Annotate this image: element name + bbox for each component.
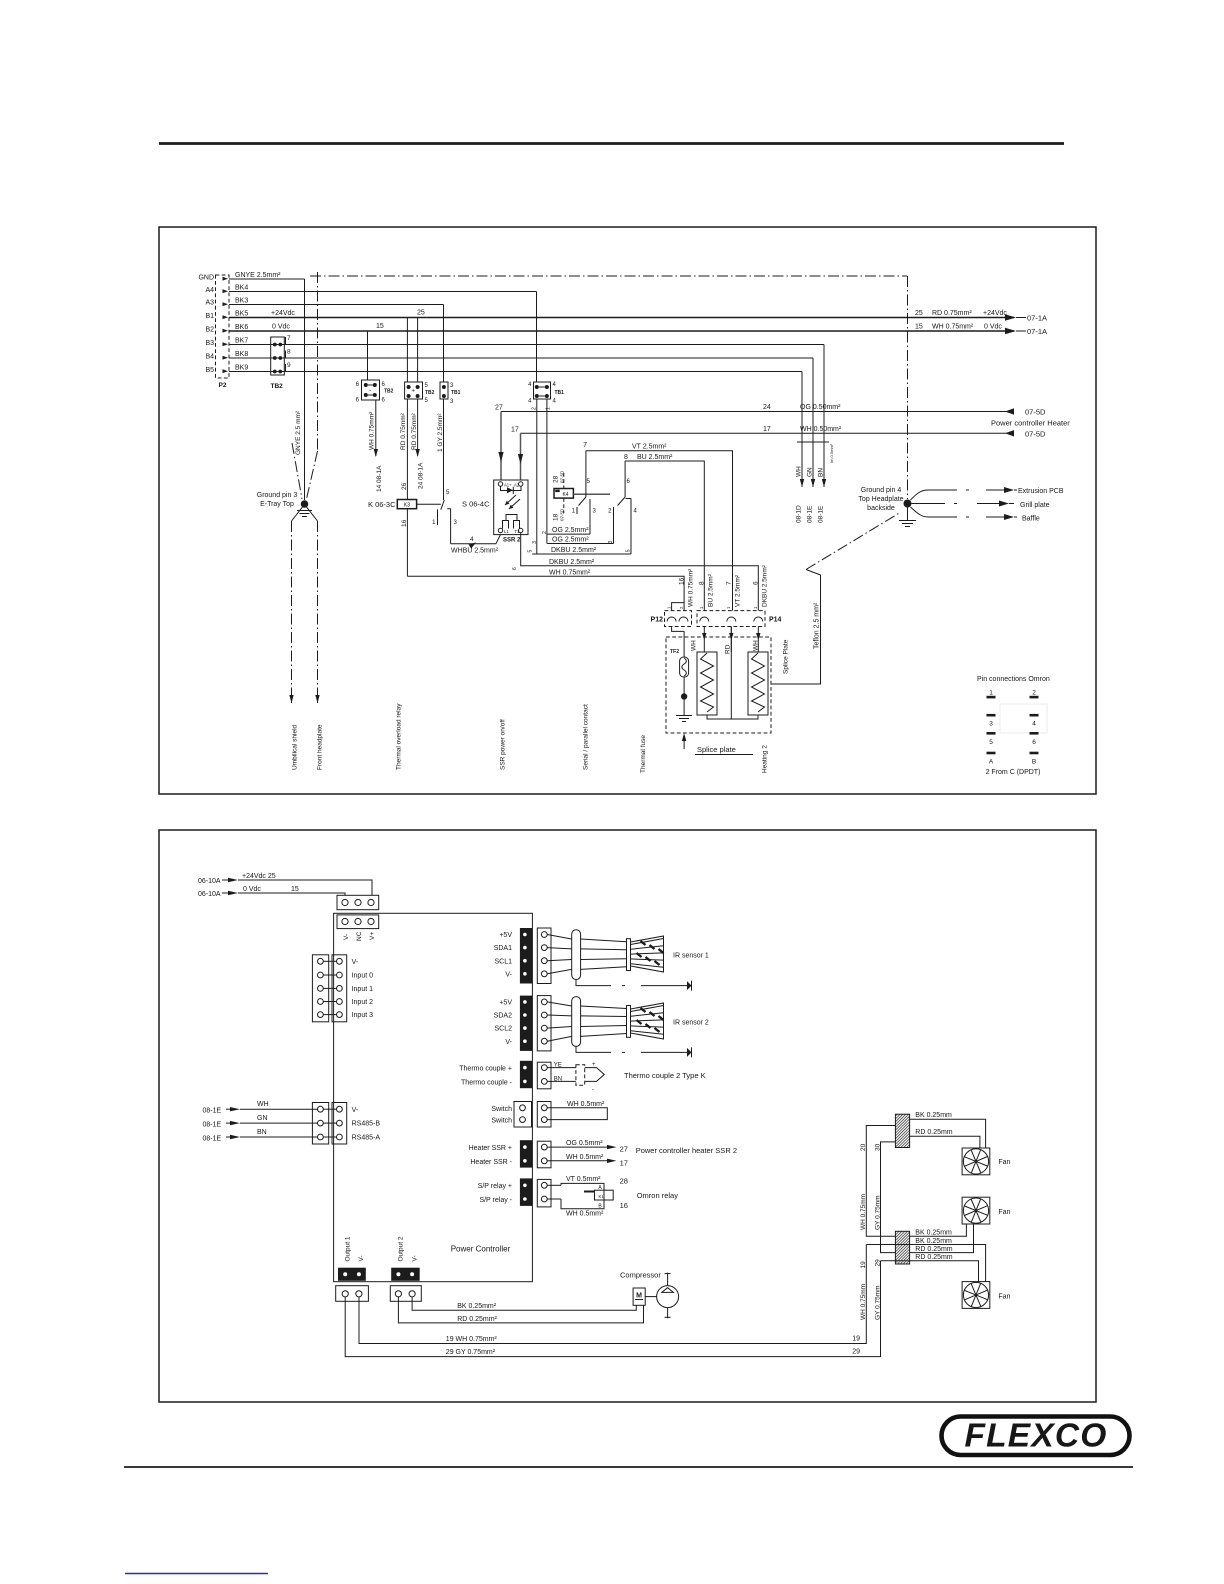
svg-text:Umbilical shield: Umbilical shield (292, 724, 299, 770)
svg-text:WH 0.5mm²: WH 0.5mm² (566, 1211, 604, 1218)
omron relay (547, 1176, 678, 1218)
svg-text:07-1A: 07-1A (1027, 327, 1047, 336)
wire WH from 08-1E (203, 1101, 318, 1115)
svg-text:06-10A: 06-10A (198, 891, 221, 898)
svg-text:7: 7 (287, 335, 291, 342)
wire 19 WH 0.75mm lower (860, 1261, 867, 1320)
svg-text:16: 16 (620, 1201, 628, 1210)
wire OG 0.5mm2 nr27 (547, 1140, 628, 1153)
wire 29 GY 0.75mm2 (345, 1261, 880, 1357)
svg-text:FLEXCO: FLEXCO (964, 1418, 1107, 1455)
svg-text:TB2: TB2 (425, 390, 435, 396)
svg-text:08-1E: 08-1E (807, 505, 814, 523)
svg-text:OG 0.50mm²: OG 0.50mm² (800, 404, 841, 411)
op-amp / SSR S 06-4C (462, 480, 528, 544)
svg-text:08-1E: 08-1E (203, 1135, 222, 1142)
svg-text:S 06-4C: S 06-4C (462, 500, 490, 509)
svg-text:Heating 2: Heating 2 (762, 745, 769, 773)
svg-text:8: 8 (287, 349, 291, 356)
wire GNYE vertical to ground pin 3 (304, 279, 306, 500)
svg-text:5: 5 (989, 739, 993, 746)
svg-text:Output 2: Output 2 (398, 1236, 405, 1261)
svg-text:SCL1: SCL1 (494, 958, 512, 965)
svg-text:A3: A3 (205, 300, 214, 307)
wires +24V drops to TB2 block (406, 318, 408, 383)
svg-text:0 Vdc: 0 Vdc (243, 886, 261, 893)
thermo couple 2 type K (547, 1062, 705, 1093)
svg-text:BU 2.5mm²: BU 2.5mm² (707, 573, 714, 607)
svg-text:A4: A4 (205, 287, 214, 294)
svg-text:Output 1: Output 1 (345, 1236, 352, 1261)
svg-text:BK7: BK7 (235, 338, 248, 345)
svg-text:V-: V- (352, 1107, 359, 1114)
heater bottom ties (707, 715, 758, 719)
wire BK3 drop (443, 305, 445, 383)
svg-text:Thermal overload relay: Thermal overload relay (396, 703, 403, 770)
wire GN from 08-1E (203, 1115, 318, 1129)
IR sensor 2 cable (547, 997, 626, 1047)
svg-text:17: 17 (620, 1158, 628, 1167)
svg-text:L1: L1 (504, 529, 509, 534)
wire 20 WH 0.75mm (860, 1126, 966, 1237)
wire BK7 (B3) (229, 344, 824, 346)
diagram frame box 1 (159, 227, 1096, 794)
svg-text:A: A (989, 759, 994, 766)
svg-text:25: 25 (915, 310, 923, 317)
svg-text:2: 2 (532, 407, 538, 410)
connector P2 (198, 275, 229, 390)
wire BK 0.25mm to fan 1 (910, 1112, 986, 1148)
footnote rule (125, 1573, 268, 1575)
svg-text:RD 0.75mm²: RD 0.75mm² (932, 310, 972, 317)
svg-text:WH 0.75mm²: WH 0.75mm² (368, 411, 375, 450)
svg-text:BK 0.25mm: BK 0.25mm (915, 1112, 952, 1119)
wire DKBU 2.5mm2 (lower) (521, 533, 759, 611)
svg-text:8: 8 (624, 454, 628, 461)
splice plate callout (682, 733, 753, 755)
wire WH 0.75mm2 to 08-1A (375, 400, 377, 456)
svg-text:BK4: BK4 (235, 285, 248, 292)
svg-text:Power controller Heater: Power controller Heater (991, 419, 1070, 428)
svg-text:08-1E: 08-1E (203, 1108, 222, 1115)
supply connector row 2 (337, 915, 379, 941)
svg-text:5: 5 (528, 550, 534, 553)
svg-text:19 WH 0.75mm²: 19 WH 0.75mm² (446, 1336, 498, 1343)
wire DKBU 2.5mm2 (upper) (532, 553, 631, 555)
svg-text:RS485-A: RS485-A (352, 1135, 381, 1142)
junction dot (683, 677, 685, 694)
svg-text:Teflon 2.5 mm²: Teflon 2.5 mm² (814, 602, 821, 649)
wire RD 0.25mm2 to compressor (398, 1297, 643, 1323)
switch connector (491, 1102, 551, 1128)
bottom rule (124, 1466, 1133, 1468)
svg-text:BK3: BK3 (235, 298, 248, 305)
svg-text:GNYE 2.5mm²: GNYE 2.5mm² (235, 272, 281, 279)
svg-text:Input 3: Input 3 (352, 1012, 374, 1019)
svg-text:Extrusion PCB: Extrusion PCB (1018, 488, 1064, 495)
terminal block TB2 pins 7 8 9 (271, 335, 292, 390)
svg-text:B2: B2 (205, 327, 214, 334)
svg-text:SSR power on/off: SSR power on/off (500, 719, 507, 770)
svg-text:TB2: TB2 (271, 383, 284, 390)
wire to Grill plate (912, 501, 1050, 510)
cable shield block 1 (895, 1114, 909, 1147)
svg-text:DKBU 2.5mm²: DKBU 2.5mm² (761, 564, 768, 607)
wire WH 0.5mm2 switch loop (547, 1101, 607, 1120)
svg-text:17: 17 (511, 427, 519, 434)
ground pin 4 (858, 487, 916, 527)
input connector (312, 955, 373, 1022)
svg-text:15: 15 (915, 324, 923, 331)
wire BK9 (B5) (229, 371, 802, 373)
svg-text:Splice plate: Splice plate (697, 745, 736, 754)
svg-text:BN: BN (257, 1129, 267, 1136)
svg-text:BK 0.25mm: BK 0.25mm (915, 1238, 952, 1245)
contact K 06-3C (417, 490, 458, 544)
connector P14 (697, 606, 782, 627)
svg-text:08-1D: 08-1D (796, 505, 803, 523)
wire OG 2.5mm2 (upper) (547, 533, 590, 535)
svg-text:17: 17 (763, 426, 771, 433)
svg-text:4: 4 (470, 536, 474, 543)
svg-text:24 08-1A: 24 08-1A (418, 462, 425, 489)
wire to DKBU stub (536, 399, 538, 553)
svg-text:BK 0.25mm²: BK 0.25mm² (457, 1303, 497, 1310)
wire BK5 +24Vdc (B1) (229, 317, 1014, 319)
wire GNYE 2.5mm2 (GND) (229, 278, 305, 280)
svg-text:V-: V- (343, 934, 350, 940)
wire WH 0.75mm2 (nr16) (407, 576, 684, 610)
svg-text:WH 0.5mm²: WH 0.5mm² (566, 1154, 604, 1161)
svg-text:GY 0.75mm: GY 0.75mm (875, 1195, 882, 1230)
wire 30 GY 0.75mm (875, 1142, 974, 1253)
svg-text:Thermo couple -: Thermo couple - (461, 1080, 513, 1087)
svg-text:0 Vdc: 0 Vdc (272, 324, 290, 331)
svg-text:+: + (411, 389, 415, 395)
svg-text:15: 15 (376, 323, 384, 330)
wire BK 0.25mm to fan 3 (866, 1238, 985, 1282)
svg-text:24: 24 (763, 404, 771, 411)
svg-text:27: 27 (620, 1145, 628, 1154)
svg-text:RD 0.25mm²: RD 0.25mm² (457, 1316, 497, 1323)
svg-text:TB1: TB1 (555, 390, 565, 396)
svg-text:V-: V- (505, 1039, 512, 1046)
wire 19 WH 0.75mm2 (359, 1245, 866, 1344)
IR sensor 2 horn (627, 1003, 664, 1039)
svg-text:1: 1 (546, 407, 552, 410)
svg-text:BN: BN (818, 468, 825, 477)
wire BK 0.25mm2 to compressor (412, 1297, 636, 1310)
cable shield block 2 (895, 1231, 909, 1264)
svg-text:V-: V- (358, 1255, 365, 1261)
svg-text:2 From C (DPDT): 2 From C (DPDT) (986, 769, 1041, 776)
svg-text:7: 7 (583, 442, 587, 449)
output 2 block (390, 1268, 421, 1302)
svg-text:7: 7 (726, 581, 733, 585)
svg-text:GND: GND (198, 275, 214, 282)
svg-text:28: 28 (553, 475, 560, 483)
svg-text:Compressor: Compressor (620, 1271, 661, 1280)
svg-text:WH 0.75mm: WH 0.75mm (860, 1194, 867, 1230)
terminal block TB1 (pins 3) (440, 382, 461, 405)
svg-text:S/P relay -: S/P relay - (479, 1197, 512, 1204)
svg-text:06-10A: 06-10A (198, 878, 221, 885)
ground pin 3 (257, 492, 318, 521)
supply connector row 1 (337, 895, 379, 909)
svg-text:IR sensor 1: IR sensor 1 (673, 953, 709, 960)
IR sensor 1 horn (627, 936, 664, 972)
wire Teflon 2.5mm2 (771, 512, 901, 684)
svg-text:K4: K4 (562, 492, 568, 498)
wire front headplate lower (317, 521, 319, 703)
svg-text:WH 0.75mm: WH 0.75mm (860, 1284, 867, 1320)
svg-text:SDA1: SDA1 (494, 945, 512, 952)
svg-text:BK8: BK8 (235, 351, 248, 358)
wire WHBU 2.5mm2 (451, 543, 496, 545)
svg-text:-: - (369, 388, 371, 394)
svg-text:Heater SSR -: Heater SSR - (470, 1159, 512, 1166)
svg-text:SDA2: SDA2 (494, 1013, 512, 1020)
svg-text:RD 0.75mm²: RD 0.75mm² (411, 412, 418, 450)
svg-text:RD 0.25mm: RD 0.25mm (915, 1129, 953, 1136)
svg-text:19: 19 (860, 1261, 867, 1269)
wire GN to 08-1E (812, 358, 814, 487)
svg-text:Power controller heater SSR 2: Power controller heater SSR 2 (636, 1146, 737, 1155)
svg-text:6: 6 (1032, 739, 1036, 746)
06-10A feed 0Vdc (198, 886, 345, 898)
svg-text:+: + (592, 1062, 596, 1068)
svg-text:2: 2 (542, 531, 548, 534)
svg-text:07-5D: 07-5D (1025, 430, 1046, 439)
S/P relay connector (478, 1178, 551, 1207)
relay coil K4 (553, 470, 611, 521)
svg-text:18: 18 (553, 513, 560, 521)
wire umbilical shield lower (291, 521, 293, 703)
svg-text:28: 28 (620, 1177, 628, 1186)
svg-text:P12: P12 (651, 617, 664, 624)
svg-text:29: 29 (852, 1349, 860, 1356)
splice plate dashed box (666, 637, 771, 733)
svg-text:WH: WH (257, 1101, 269, 1108)
dash-dot umbilical shield vertical (292, 443, 302, 499)
svg-text:Heater SSR +: Heater SSR + (469, 1145, 512, 1152)
svg-text:15: 15 (291, 886, 299, 893)
svg-text:07-1A: 07-1A (1027, 314, 1047, 323)
pin connections Omron table (977, 676, 1050, 776)
wire RD 0.75mm2 to 08-1A (417, 399, 419, 456)
connector P12 (651, 603, 692, 632)
wire 1 GY 2.5mm2 (443, 399, 445, 500)
svg-text:OG 2.5mm²: OG 2.5mm² (552, 527, 589, 534)
thermal fuse TF2 (670, 649, 688, 677)
svg-text:K3: K3 (404, 503, 410, 509)
svg-text:4: 4 (1032, 721, 1036, 728)
dash-dot front headplate vertical (317, 272, 319, 451)
svg-text:Omron relay: Omron relay (637, 1191, 679, 1200)
svg-text:GN: GN (257, 1115, 268, 1122)
svg-text:Pin connections Omron: Pin connections Omron (977, 676, 1050, 683)
wire WH 0.5mm2 nr17 (547, 1154, 628, 1168)
wire WH to 08-1D (801, 372, 803, 488)
svg-text:DKBU 2.5mm²: DKBU 2.5mm² (549, 559, 595, 566)
svg-text:IR sensor 2: IR sensor 2 (673, 1020, 709, 1027)
svg-text:VT 2.5mm²: VT 2.5mm² (632, 444, 667, 451)
svg-text:A1+: A1+ (504, 483, 512, 488)
ground symbol (676, 700, 692, 722)
dash-dot umbilical top run (310, 275, 907, 277)
svg-text:Ground pin 4: Ground pin 4 (861, 487, 902, 494)
svg-text:T1: T1 (515, 529, 521, 534)
dash-dot vertical to ground pin 4 (907, 276, 909, 499)
svg-text:3: 3 (532, 541, 538, 544)
svg-text:WHBU 2.5mm²: WHBU 2.5mm² (451, 548, 499, 555)
svg-text:E-Tray Top: E-Tray Top (260, 501, 294, 508)
output 1 block (336, 1268, 369, 1302)
svg-text:+24Vdc 25: +24Vdc 25 (242, 873, 276, 880)
svg-text:Serial / parallel contact: Serial / parallel contact (583, 704, 590, 770)
wire 0Vdc drop to TB2 block (367, 331, 369, 380)
contact pins 6-2-4 (608, 461, 637, 554)
svg-text:6: 6 (512, 567, 518, 570)
svg-text:SCL2: SCL2 (494, 1026, 512, 1033)
svg-text:Power Controller: Power Controller (451, 1245, 511, 1254)
IR sensor 1 shield wire (576, 980, 692, 991)
wire BN to 08-1E (823, 345, 825, 488)
svg-text:BU 2.5mm²: BU 2.5mm² (637, 454, 673, 461)
svg-text:OG 0.5mm²: OG 0.5mm² (566, 1140, 603, 1147)
svg-text:25: 25 (417, 310, 425, 317)
svg-text:WH 0.75mm²: WH 0.75mm² (687, 568, 694, 607)
heater SSR connector (469, 1140, 551, 1168)
svg-text:Top Headplate: Top Headplate (858, 496, 903, 503)
wire 29 GY 0.75mm lower (875, 1259, 882, 1320)
wire drops into splice plate (703, 627, 705, 653)
svg-text:BK5: BK5 (235, 311, 248, 318)
svg-text:WH: WH (691, 640, 698, 651)
terminal block TB2 (pins 5) (405, 382, 435, 404)
svg-text:Input 1: Input 1 (352, 986, 374, 993)
svg-text:RD: RD (725, 644, 732, 654)
FLEXCO logo (942, 1417, 1130, 1456)
wire BK3 (A3) (229, 304, 444, 306)
svg-text:1 GY 2.5mm²: 1 GY 2.5mm² (437, 413, 444, 452)
svg-text:+5V: +5V (499, 1000, 512, 1007)
compressor M1 (620, 1271, 679, 1319)
svg-text:SSR 2: SSR 2 (503, 538, 521, 544)
svg-text:5: 5 (625, 549, 631, 552)
svg-text:9: 9 (287, 362, 291, 369)
svg-text:20: 20 (860, 1143, 867, 1151)
svg-text:NC: NC (356, 931, 363, 941)
svg-text:+5V: +5V (499, 932, 512, 939)
svg-text:6: 6 (753, 581, 760, 585)
svg-text:3: 3 (608, 540, 614, 543)
svg-text:Fan: Fan (998, 1209, 1010, 1216)
wire BN from 08-1E (203, 1129, 318, 1143)
svg-text:Splice Plate: Splice Plate (783, 639, 790, 674)
svg-text:16: 16 (401, 519, 408, 527)
relay coil K3 (K 06-3C) (368, 500, 417, 510)
svg-text:RD 0.25mm: RD 0.25mm (915, 1246, 953, 1253)
top rule (159, 142, 1064, 145)
svg-text:Baffle: Baffle (1022, 516, 1040, 523)
svg-text:V+: V+ (369, 932, 376, 940)
svg-text:RD 0.75mm²: RD 0.75mm² (400, 412, 407, 450)
svg-text:0 Vdc: 0 Vdc (984, 324, 1002, 331)
svg-text:A2: A2 (514, 483, 520, 488)
svg-text:Thermo couple +: Thermo couple + (459, 1066, 512, 1073)
svg-text:BK 0.25mm: BK 0.25mm (915, 1230, 952, 1237)
wire BK8 (B4) (229, 357, 813, 359)
svg-text:07-5D: 07-5D (560, 508, 565, 521)
wire to Baffle (911, 507, 1040, 523)
wire RD 0.25mm to fan 3 (881, 1254, 979, 1281)
svg-text:V-: V- (412, 1255, 419, 1261)
svg-text:V-: V- (505, 971, 512, 978)
svg-text:DKBU 2.5mm²: DKBU 2.5mm² (551, 547, 597, 554)
wire to Extrusion PCB (911, 487, 1064, 500)
svg-text:8: 8 (699, 581, 706, 585)
svg-text:B1: B1 (205, 313, 214, 320)
wire BK4 drop to TB1 (536, 292, 538, 383)
IR sensor 2 shield wire (576, 1046, 692, 1057)
svg-text:Switch: Switch (491, 1118, 512, 1125)
svg-text:Input 0: Input 0 (352, 973, 374, 980)
wire RD 0.25mm to fan 1 (910, 1129, 980, 1148)
IR sensor 1 cable (547, 930, 626, 980)
terminal block TB1 (pins 4) (528, 382, 564, 405)
svg-text:TB2: TB2 (384, 389, 394, 395)
svg-text:GNYE 2.5 mm²: GNYE 2.5 mm² (295, 410, 302, 455)
svg-text:Ground pin 3: Ground pin 3 (257, 492, 298, 499)
svg-text:BK6: BK6 (235, 324, 248, 331)
svg-text:WH 0.75mm²: WH 0.75mm² (549, 569, 591, 576)
svg-text:WH 0.50mm²: WH 0.50mm² (800, 426, 842, 433)
svg-text:08-1E: 08-1E (203, 1122, 222, 1129)
wire OG 2.5mm2 (lower) (547, 543, 613, 545)
wire WH 0.75mm2 nr16 from K3 (406, 509, 408, 577)
svg-text:3: 3 (989, 721, 993, 728)
svg-text:OG 2.5mm²: OG 2.5mm² (552, 537, 589, 544)
svg-text:Thermal fuse: Thermal fuse (640, 735, 647, 773)
svg-text:B5: B5 (205, 367, 214, 374)
svg-text:Grill plate: Grill plate (1020, 502, 1050, 509)
svg-text:2: 2 (1032, 690, 1036, 697)
svg-text:BK9: BK9 (235, 365, 248, 372)
svg-text:-: - (592, 1087, 594, 1093)
svg-text:K1: K1 (598, 1194, 604, 1199)
06-10A feed +24Vdc (198, 873, 372, 895)
svg-text:B: B (1032, 759, 1036, 766)
svg-text:VT 0.5mm²: VT 0.5mm² (566, 1176, 601, 1183)
contact pins 5-1-3 (572, 451, 597, 534)
svg-text:29: 29 (875, 1259, 882, 1267)
svg-text:S/P relay +: S/P relay + (478, 1183, 512, 1190)
svg-text:29 GY 0.75mm²: 29 GY 0.75mm² (446, 1349, 496, 1356)
svg-text:P14: P14 (769, 617, 782, 624)
thermo couple connector (459, 1061, 551, 1089)
RS485 connector (312, 1103, 380, 1145)
connector +5V SDA1 SCL1 V- (494, 928, 551, 984)
power controller box (334, 913, 533, 1281)
svg-text:+24Vdc: +24Vdc (271, 310, 295, 317)
svg-text:VT 2.5mm²: VT 2.5mm² (734, 574, 741, 607)
wire BK6 0Vdc (B2) (229, 330, 1014, 332)
svg-text:backside: backside (867, 505, 895, 512)
terminal block TB2 (pins 6) (356, 380, 394, 404)
svg-text:14 08-1A: 14 08-1A (376, 465, 383, 492)
svg-text:26: 26 (401, 482, 408, 490)
